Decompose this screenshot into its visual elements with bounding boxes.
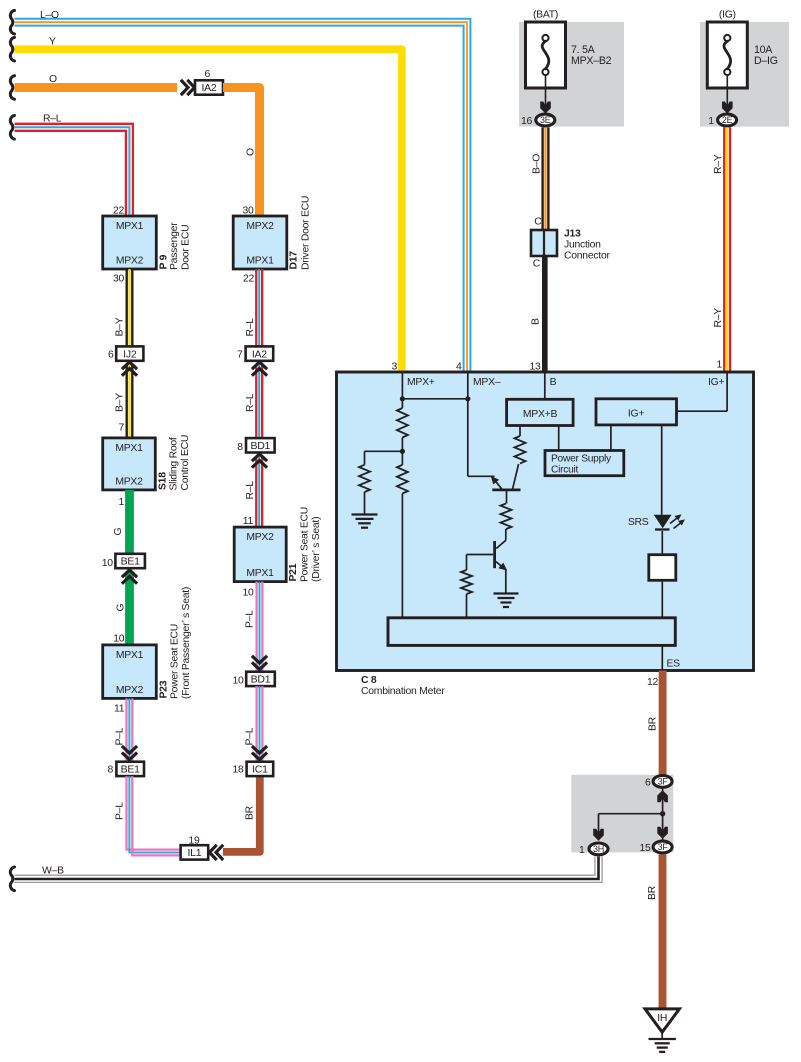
ECU P9 box	[103, 216, 157, 269]
svg-text:15: 15	[639, 843, 651, 854]
arrow down into 3F lower	[657, 827, 668, 839]
svg-text:SRS: SRS	[628, 517, 649, 528]
fuse (IG) element	[724, 35, 730, 41]
svg-text:IA2: IA2	[201, 82, 216, 94]
fuse (BAT) body	[526, 22, 566, 88]
svg-text:8: 8	[237, 442, 243, 453]
meter internal wire MPX+ to MPX-	[402, 398, 467, 400]
svg-text:IJ2: IJ2	[123, 348, 137, 360]
svg-text:P–L: P–L	[245, 610, 256, 628]
ECU P21 box	[234, 527, 286, 582]
svg-text:Connector: Connector	[564, 251, 610, 262]
svg-text:B–Y: B–Y	[115, 317, 126, 336]
svg-text:W–B: W–B	[42, 866, 64, 877]
break symbol L-O	[10, 10, 14, 34]
chevrons into IL1	[210, 845, 217, 860]
svg-text:IH: IH	[657, 1013, 667, 1024]
svg-text:MPX2: MPX2	[246, 221, 274, 232]
SRS LED arrows	[670, 517, 679, 524]
svg-text:1: 1	[118, 497, 124, 508]
svg-text:BR: BR	[647, 885, 658, 900]
wire P-L (pink/blue) P23 to BE1 lower	[125, 698, 127, 761]
wire B-Y (black/yellow) IJ2 to S18	[125, 364, 127, 438]
svg-text:10: 10	[232, 676, 244, 687]
svg-text:1: 1	[716, 360, 722, 371]
meter wire R6 to bus	[466, 594, 468, 618]
svg-text:7: 7	[237, 350, 243, 361]
junction connector J13 box	[531, 230, 557, 256]
connector 3F (lower)	[653, 841, 672, 853]
svg-text:R–L: R–L	[43, 114, 62, 125]
svg-text:1: 1	[708, 116, 714, 127]
svg-text:B: B	[531, 318, 542, 325]
resistor R2 (left)	[359, 465, 370, 492]
meter wire Q2 emitter to ground	[505, 570, 507, 594]
ECU D17 box	[233, 216, 287, 269]
chevrons below IA2 lower	[252, 362, 267, 369]
svg-text:R–L: R–L	[245, 481, 256, 500]
wire L-O (light blue / orange) from break to meter pin 4	[15, 19, 471, 371]
wire gray block horizontal	[599, 813, 663, 815]
break symbol W-B	[10, 867, 14, 891]
connector 3E	[536, 114, 555, 126]
wire BR (brown) ES to 3F	[659, 671, 667, 775]
connector BE1 (lower)	[116, 762, 144, 776]
break symbol Y	[10, 37, 14, 61]
transistor Q2 emitter	[496, 562, 505, 569]
svg-text:(IG): (IG)	[719, 10, 736, 21]
svg-text:4: 4	[456, 362, 462, 373]
svg-text:MPX1: MPX1	[116, 221, 144, 232]
meter wire LED to resistor box	[661, 531, 663, 555]
svg-text:BD1: BD1	[251, 674, 271, 686]
wire R-L (red/blue) D17 to IA2 lower	[255, 269, 257, 346]
svg-text:G: G	[113, 528, 124, 536]
junction dot gray block	[660, 811, 665, 816]
transistor Q1 base bar	[492, 488, 520, 491]
svg-text:BE1: BE1	[121, 556, 141, 568]
resistor R3 (MPX+ lower)	[397, 465, 408, 494]
svg-text:J13: J13	[564, 229, 581, 240]
svg-text:6: 6	[204, 69, 210, 80]
resistor R4 (under MPX+B)	[515, 436, 526, 463]
connector BD1 (upper)	[246, 438, 275, 452]
wire fuse (BAT) to connector	[545, 75, 547, 108]
svg-text:R–L: R–L	[245, 393, 256, 412]
svg-text:BE1: BE1	[121, 764, 141, 776]
combination meter C8 box	[337, 372, 754, 671]
svg-text:8: 8	[107, 764, 113, 775]
svg-text:D–IG: D–IG	[754, 55, 778, 67]
svg-text:B–Y: B–Y	[115, 393, 126, 412]
svg-text:3F: 3F	[658, 777, 669, 787]
ECU S18 box	[103, 438, 156, 490]
svg-text:12: 12	[647, 677, 659, 688]
fuse (IG) body	[707, 22, 747, 88]
connector BD1 (lower)	[246, 672, 275, 686]
wire R-L (red/blue) BD1 to P21	[255, 456, 257, 527]
wire P-L (pink/blue) BD1 lower to IC1	[255, 686, 257, 762]
svg-text:C 8: C 8	[361, 675, 377, 686]
svg-text:P–L: P–L	[245, 727, 256, 745]
wire inside gray block vertical	[662, 788, 664, 840]
svg-text:B: B	[550, 377, 557, 388]
svg-text:30: 30	[113, 274, 125, 285]
connector IA2 (lower)	[246, 346, 274, 360]
svg-text:BR: BR	[648, 716, 659, 731]
chevrons below BD1 upper	[252, 454, 267, 461]
svg-text:MPX1: MPX1	[246, 256, 274, 267]
svg-text:B–O: B–O	[532, 154, 543, 174]
meter internal box MPX+B	[507, 399, 573, 425]
resistor R5	[501, 504, 512, 530]
ground symbol bottom	[649, 1038, 676, 1040]
svg-text:L–O: L–O	[40, 10, 59, 21]
svg-text:MPX2: MPX2	[116, 256, 144, 267]
svg-text:Power Seat ECU(Front Passenger: Power Seat ECU(Front Passenger’ s Seat)	[170, 587, 192, 699]
connector IA2 (top)	[195, 80, 223, 94]
transistor Q1 emitter	[494, 479, 503, 490]
meter internal wire MPX+ pin down	[401, 373, 403, 399]
arrow into 2E	[722, 102, 733, 114]
svg-text:6: 6	[108, 350, 114, 361]
svg-text:IG+: IG+	[628, 409, 644, 420]
svg-text:MPX1: MPX1	[116, 650, 144, 661]
meter wire R3 to bus	[401, 494, 403, 618]
resistor R1 (MPX+ upper)	[397, 408, 408, 438]
meter small box (resistor)	[649, 555, 676, 581]
svg-text:C: C	[534, 217, 542, 228]
svg-text:MPX2: MPX2	[116, 685, 144, 696]
meter wire small box to bus	[661, 580, 663, 619]
svg-text:22: 22	[243, 274, 255, 285]
svg-text:3F: 3F	[658, 842, 669, 852]
svg-text:Combination Meter: Combination Meter	[361, 686, 445, 697]
svg-text:11: 11	[243, 516, 254, 527]
svg-text:R–Y: R–Y	[713, 308, 724, 328]
svg-text:Y: Y	[49, 37, 56, 48]
ground IH stem	[661, 1032, 663, 1039]
connector IJ2	[116, 346, 143, 360]
svg-text:Power Supply: Power Supply	[551, 454, 612, 465]
transistor Q2 base bar	[493, 541, 496, 568]
svg-text:D17: D17	[289, 251, 300, 270]
gray connector block	[571, 775, 673, 853]
svg-text:P–L: P–L	[115, 727, 126, 745]
connector IL1	[181, 845, 209, 859]
arrow into 3E	[540, 102, 551, 114]
ECU P23 box	[103, 645, 157, 699]
svg-text:2E: 2E	[722, 115, 733, 125]
wire B (black) from J13 to meter pin 13	[542, 256, 548, 371]
fuse (BAT) element	[542, 35, 548, 41]
resistor R6	[461, 570, 472, 594]
svg-text:BR: BR	[245, 805, 256, 820]
svg-text:IA2: IA2	[252, 348, 267, 360]
svg-text:6: 6	[645, 777, 651, 788]
svg-text:MPX2: MPX2	[246, 532, 274, 543]
arrow up into 3F upper	[657, 790, 668, 802]
svg-text:7: 7	[118, 423, 124, 434]
svg-text:MPX+B: MPX+B	[523, 409, 558, 420]
meter internal box IG+	[596, 399, 677, 425]
svg-text:11: 11	[114, 704, 125, 715]
svg-text:Power Seat ECU(Driver’ s Seat): Power Seat ECU(Driver’ s Seat)	[300, 507, 322, 582]
meter wire IG+ to SRS LED	[661, 425, 663, 515]
svg-text:P21: P21	[288, 563, 299, 581]
fuse block (BAT) gray background	[519, 22, 624, 127]
meter wire B pin to MPX+B	[544, 373, 546, 399]
svg-text:R–Y: R–Y	[713, 154, 724, 174]
arrow down into 3H	[593, 829, 604, 841]
meter wire R5 to Q2	[505, 529, 507, 540]
junction dot MPX+	[400, 396, 405, 401]
meter wire bus to ES pin	[661, 645, 663, 670]
svg-text:PassengerDoor ECU: PassengerDoor ECU	[169, 222, 191, 270]
junction dot MPX-	[465, 396, 470, 401]
wire BR (brown) 3F to ground IH	[659, 854, 667, 1007]
break symbol O	[10, 76, 14, 100]
svg-text:22: 22	[113, 206, 125, 217]
connector BE1 (upper)	[115, 554, 144, 568]
svg-text:3H: 3H	[593, 844, 604, 854]
ground triangle IH	[645, 1009, 679, 1032]
fuse block (IG) gray background	[700, 22, 789, 127]
svg-text:IC1: IC1	[252, 764, 268, 776]
wire R-L (red / light blue) from break to P9 pin 22	[15, 124, 133, 215]
svg-text:BD1: BD1	[250, 440, 270, 452]
svg-text:3: 3	[391, 362, 397, 373]
meter wire MPX- to transistor Q1 emitter	[468, 475, 495, 477]
chevrons below IJ2	[122, 362, 137, 369]
meter internal wire MPX- pin down	[467, 373, 469, 476]
wire P-L (pink/blue) P21 to BD1 lower	[255, 582, 257, 672]
svg-text:IL1: IL1	[187, 847, 201, 859]
wire P-L (pink/blue) BE1 to IL1	[127, 776, 181, 850]
wire G (green) BE1 to P23	[125, 572, 134, 645]
junction dot left branch	[400, 449, 405, 454]
meter wire R2 to ground	[364, 492, 366, 515]
SRS LED diode	[654, 515, 672, 529]
meter wire into R1	[401, 399, 403, 408]
connector 3H	[589, 843, 608, 855]
break symbol R-L	[10, 116, 14, 140]
svg-text:G: G	[116, 604, 127, 612]
wire O (orange) from IA2 to D17 pin 30	[223, 88, 260, 216]
svg-text:Circuit: Circuit	[551, 465, 579, 476]
svg-text:MPX2: MPX2	[115, 477, 143, 488]
svg-text:Junction: Junction	[564, 240, 601, 251]
transistor Q1 collector	[513, 464, 519, 489]
wire BR (brown) IC1 to IL1	[223, 776, 260, 852]
svg-text:C: C	[533, 259, 541, 270]
meter wire MPX+B to PSC	[558, 426, 560, 451]
wire Y (yellow) from break to meter pin 3	[15, 49, 402, 371]
ground G1	[352, 513, 378, 515]
svg-text:30: 30	[242, 206, 254, 217]
connector 2E	[718, 114, 737, 126]
svg-text:S18: S18	[158, 472, 169, 490]
svg-text:10: 10	[113, 634, 125, 645]
svg-text:10: 10	[102, 558, 114, 569]
transistor Q2 base wire	[467, 554, 494, 556]
svg-text:O: O	[246, 148, 257, 156]
meter wire IG+ pin	[726, 373, 728, 411]
chevrons above BD1 lower	[252, 662, 267, 669]
svg-text:MPX1: MPX1	[115, 443, 143, 454]
wire G (green) S18 to BE1	[125, 490, 134, 554]
svg-text:Driver Door ECU: Driver Door ECU	[301, 196, 312, 270]
wire gray block left vertical	[598, 814, 600, 841]
wire B-Y (black/yellow) P9 to IJ2	[125, 269, 127, 346]
svg-text:P–L: P–L	[115, 802, 126, 820]
svg-text:10: 10	[242, 588, 254, 599]
ground G2	[494, 592, 519, 594]
svg-text:ES: ES	[667, 659, 681, 670]
svg-text:Sliding RoofControl ECU: Sliding RoofControl ECU	[169, 435, 191, 491]
wire R-L (red/blue) IA2 to BD1	[255, 364, 257, 438]
svg-text:O: O	[49, 74, 57, 85]
svg-text:MPX–: MPX–	[473, 377, 501, 388]
meter wire IG+ to PSC	[610, 425, 612, 451]
chevrons above IC1	[252, 753, 267, 760]
svg-text:P23: P23	[159, 680, 170, 698]
svg-text:18: 18	[233, 764, 245, 775]
meter wire R1 to junction	[401, 438, 403, 465]
connector IC1	[247, 762, 274, 776]
wire W-B (white/black) from break to connector 3H	[15, 857, 595, 876]
meter wire MPX+B to R4	[519, 426, 521, 437]
chevrons above BE1 lower	[122, 753, 137, 760]
chevrons below BE1	[122, 570, 137, 577]
svg-text:1: 1	[579, 845, 585, 856]
svg-text:(BAT): (BAT)	[533, 10, 558, 21]
svg-text:P 9: P 9	[159, 254, 170, 269]
meter wire Q1 to R5	[506, 491, 508, 504]
svg-text:3E: 3E	[540, 115, 551, 125]
meter wire junction to left branch	[365, 450, 403, 452]
svg-text:MPX1: MPX1	[246, 568, 274, 579]
svg-text:IG+: IG+	[708, 377, 724, 388]
svg-text:13: 13	[529, 362, 541, 373]
meter internal bus bar	[388, 618, 675, 646]
connector 3F (upper)	[653, 776, 672, 788]
meter internal box Power Supply Circuit	[545, 451, 624, 476]
chevrons into IA2	[187, 80, 194, 95]
svg-text:MPX–B2: MPX–B2	[571, 55, 612, 67]
wire B-O (black/orange) from 3E to J13	[541, 127, 543, 230]
wire fuse (IG) to connector	[726, 75, 728, 108]
svg-text:MPX+: MPX+	[407, 377, 435, 388]
wire R-Y (red/yellow) from 2E to meter pin 1	[723, 127, 725, 371]
svg-text:R–L: R–L	[245, 318, 256, 337]
wire O (orange) from break to connector IA2	[15, 83, 178, 92]
svg-text:16: 16	[521, 116, 533, 127]
